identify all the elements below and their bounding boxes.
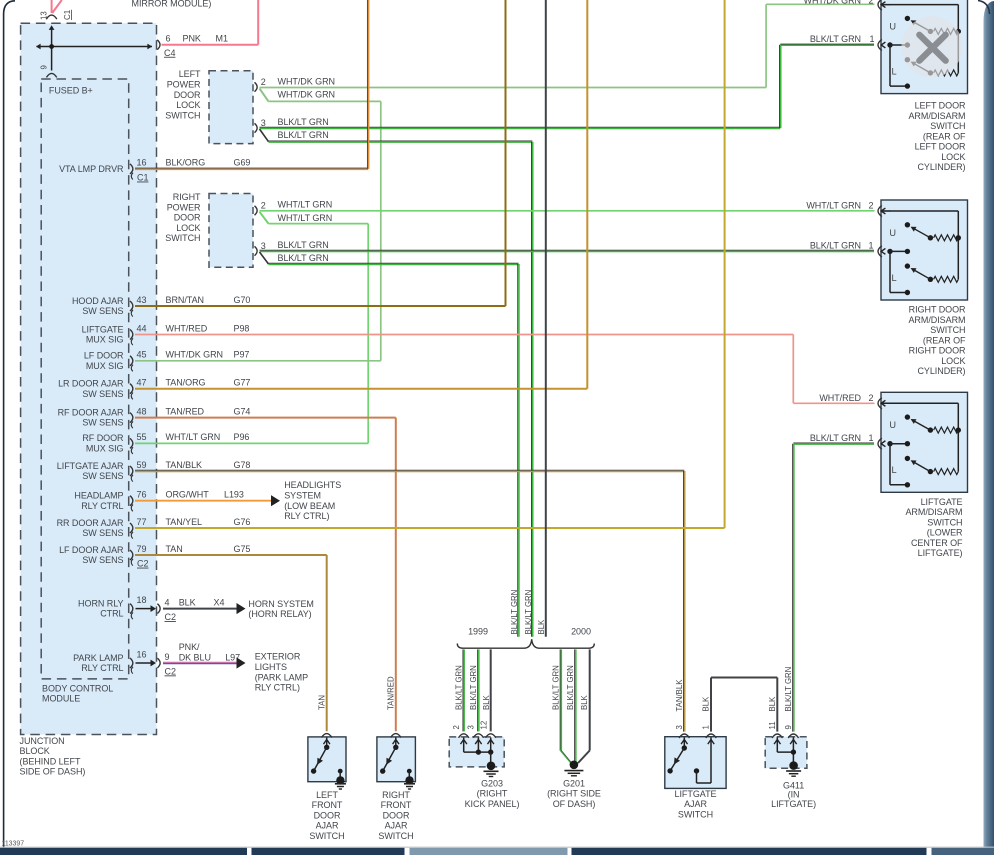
left door arm/disarm switch pin1 label <box>810 34 875 44</box>
liftgate arm/disarm switch pin1 label <box>810 433 874 443</box>
svg-text:RIGHT: RIGHT <box>382 790 410 800</box>
wire BLK X4 to horn system <box>163 603 246 614</box>
svg-text:FRONT: FRONT <box>381 800 412 810</box>
G201 ground <box>564 761 583 776</box>
svg-text:2: 2 <box>261 200 266 210</box>
wire label TAN/BLK rotated <box>675 679 684 712</box>
wire TAN/RED G74 from pin48 to right front door ajar switch <box>135 418 396 732</box>
wire BLK/LT GRN upper from right PDL pin3 to right door arm/disarm switch <box>260 250 875 251</box>
svg-text:U: U <box>889 228 896 238</box>
pin 9 PNK/DK BLU L97 labels <box>165 642 241 676</box>
wire label BLK rotated at liftgate pin1 <box>702 696 711 712</box>
wire BLK/ORG G69 from BCM pin16 to top <box>135 0 369 169</box>
svg-text:CTRL: CTRL <box>100 609 123 619</box>
svg-text:RF DOOR: RF DOOR <box>82 433 124 443</box>
splice wire labels BLK/LT GRN BLK/LT GRN BLK above brace <box>510 590 546 635</box>
liftgate arm/disarm switch pin2 label <box>819 393 873 403</box>
HORN RLY CTRL label <box>78 598 123 618</box>
svg-text:SW SENS: SW SENS <box>82 528 123 538</box>
svg-text:BLK/LT GRN: BLK/LT GRN <box>278 240 329 250</box>
svg-text:TAN/BLK: TAN/BLK <box>675 679 684 712</box>
svg-text:55: 55 <box>137 432 147 442</box>
svg-text:9: 9 <box>165 652 170 662</box>
svg-text:RIGHT DOOR: RIGHT DOOR <box>909 305 966 315</box>
svg-text:1999: 1999 <box>468 626 488 636</box>
wire label BLK rotated at G411 pin11 <box>768 696 777 712</box>
svg-text:SW SENS: SW SENS <box>82 471 123 481</box>
junction block label <box>20 736 86 777</box>
svg-text:HORN SYSTEM: HORN SYSTEM <box>248 599 313 609</box>
svg-text:SIDE OF DASH): SIDE OF DASH) <box>20 767 86 777</box>
svg-text:PNK/: PNK/ <box>179 642 200 652</box>
svg-text:X4: X4 <box>214 597 225 607</box>
right front door ajar switch box <box>377 737 416 782</box>
right front door ajar switch pin bracket <box>391 734 401 738</box>
svg-text:LF DOOR: LF DOOR <box>84 351 124 361</box>
svg-text:P97: P97 <box>234 350 250 360</box>
connector C4 pin 6 bracket <box>157 40 160 50</box>
svg-text:L: L <box>891 273 896 283</box>
pin 6 labels <box>164 34 228 58</box>
G411 pin brackets <box>772 734 799 738</box>
close icon overlay <box>919 35 945 61</box>
svg-text:BLK/LT GRN: BLK/LT GRN <box>810 433 861 443</box>
svg-text:BLK/LT GRN: BLK/LT GRN <box>784 667 793 712</box>
svg-text:FRONT: FRONT <box>312 800 343 810</box>
wire TAN G75 from pin79 to left front door ajar switch <box>135 555 327 731</box>
svg-text:PNK: PNK <box>183 34 201 44</box>
BCM pin 48 TAN/RED bracket and labels <box>130 406 250 428</box>
svg-text:TAN: TAN <box>317 695 326 710</box>
svg-text:(HORN RELAY): (HORN RELAY) <box>248 609 311 619</box>
svg-text:WHT/LT GRN: WHT/LT GRN <box>166 432 221 442</box>
svg-text:AJAR: AJAR <box>684 799 707 809</box>
svg-text:(PARK LAMP: (PARK LAMP <box>255 672 308 682</box>
BCM pin 59 TAN/BLK bracket and labels <box>130 460 250 482</box>
svg-text:RLY CTRL): RLY CTRL) <box>255 683 300 693</box>
svg-text:L193: L193 <box>224 490 244 500</box>
pin 9 label <box>40 65 49 69</box>
wire label BLK/LT GRN upper left PDL <box>278 117 329 127</box>
svg-text:BLK/LT GRN: BLK/LT GRN <box>455 665 464 710</box>
left front door ajar switch ground <box>335 776 346 789</box>
svg-text:POWER: POWER <box>167 202 201 212</box>
svg-text:RF DOOR AJAR: RF DOOR AJAR <box>58 407 124 417</box>
svg-text:LEFT: LEFT <box>316 790 338 800</box>
right front door ajar switch internals <box>380 738 412 780</box>
svg-text:CYLINDER): CYLINDER) <box>917 366 965 376</box>
svg-text:LOCK: LOCK <box>176 223 200 233</box>
svg-text:DOOR: DOOR <box>174 213 201 223</box>
svg-text:SWITCH: SWITCH <box>678 809 713 819</box>
svg-text:48: 48 <box>137 406 147 416</box>
svg-text:3: 3 <box>467 725 476 729</box>
right power door lock switch dashed box <box>209 194 253 268</box>
svg-text:TAN/BLK: TAN/BLK <box>166 460 203 470</box>
wire BLK/LT GRN lower from left PDL pin3 to splice <box>260 129 533 637</box>
BCM pin 18 HORN RLY CTRL bracket <box>130 595 160 619</box>
svg-text:VTA LMP DRVR: VTA LMP DRVR <box>59 164 124 174</box>
wire BLK splice to G203 pin12 <box>490 649 492 731</box>
G411 pin numbers 11 and 9 rotated <box>768 721 793 729</box>
svg-text:BLK/LT GRN: BLK/LT GRN <box>810 34 861 44</box>
svg-text:9: 9 <box>784 725 793 729</box>
svg-text:1: 1 <box>869 433 874 443</box>
svg-text:TAN: TAN <box>166 544 183 554</box>
svg-text:BLOCK: BLOCK <box>20 746 50 756</box>
body control module dashed box <box>41 79 129 679</box>
svg-text:(RIGHT SIDE: (RIGHT SIDE <box>547 789 601 799</box>
liftgate arm/disarm switch <box>878 392 968 492</box>
wire label TAN/RED rotated <box>386 676 395 710</box>
wire label WHT/LT GRN upper <box>278 200 333 210</box>
svg-text:59: 59 <box>137 460 147 470</box>
svg-text:MUX SIG: MUX SIG <box>86 444 124 454</box>
svg-text:P98: P98 <box>234 323 250 333</box>
svg-text:LOCK: LOCK <box>941 152 965 162</box>
svg-text:G70: G70 <box>234 295 251 305</box>
svg-text:RIGHT: RIGHT <box>173 192 201 202</box>
svg-text:BLK/ORG: BLK/ORG <box>166 158 206 168</box>
G411 connector dashed box <box>765 737 807 769</box>
svg-text:LOCK: LOCK <box>941 356 965 366</box>
svg-text:113397: 113397 <box>2 841 25 848</box>
svg-text:SYSTEM: SYSTEM <box>284 491 321 501</box>
svg-text:WHT/RED: WHT/RED <box>819 393 861 403</box>
liftgate ajar switch label <box>675 789 717 819</box>
svg-text:LEFT: LEFT <box>179 69 201 79</box>
svg-text:RIGHT DOOR: RIGHT DOOR <box>909 346 966 356</box>
wire label WHT/DK GRN upper <box>278 76 336 86</box>
svg-text:SW SENS: SW SENS <box>82 555 123 565</box>
svg-text:FUSED B+: FUSED B+ <box>49 85 93 95</box>
svg-text:BLK: BLK <box>702 696 711 712</box>
svg-text:G69: G69 <box>234 158 251 168</box>
svg-text:RR DOOR AJAR: RR DOOR AJAR <box>57 518 124 528</box>
wire BLK from liftgate ajar pin1 to G411 pin11 <box>711 678 777 732</box>
svg-text:16: 16 <box>137 158 147 168</box>
G201 label <box>547 778 601 809</box>
wire label TAN rotated <box>317 695 326 710</box>
svg-text:2: 2 <box>869 201 874 211</box>
svg-text:2: 2 <box>261 77 266 87</box>
svg-text:(BEHIND LEFT: (BEHIND LEFT <box>20 756 81 766</box>
svg-text:BLK/LT GRN: BLK/LT GRN <box>552 665 561 710</box>
headlights system label <box>284 480 341 521</box>
BCM pin 79 TAN bracket and labels <box>130 544 250 569</box>
svg-text:LF DOOR AJAR: LF DOOR AJAR <box>59 545 124 555</box>
svg-text:LIGHTS: LIGHTS <box>255 662 287 672</box>
svg-text:SWITCH: SWITCH <box>927 517 962 527</box>
wire label WHT/DK GRN lower <box>278 90 336 100</box>
drawing number 113397 <box>2 841 25 848</box>
svg-text:DK BLU: DK BLU <box>179 653 211 663</box>
G203 pin numbers 2 3 12 <box>452 721 488 730</box>
BCM pin 45 WHT/DK GRN bracket and labels <box>130 350 249 372</box>
svg-text:13: 13 <box>40 11 49 20</box>
left front door ajar switch pin bracket <box>322 734 332 738</box>
wire BLK/LT GRN splice to G203 pin3 <box>478 649 479 731</box>
svg-text:HEADLAMP: HEADLAMP <box>74 491 123 501</box>
svg-text:LIFTGATE: LIFTGATE <box>82 324 124 334</box>
left front door ajar switch box <box>308 737 346 782</box>
page frame right scrollbar <box>978 1 994 855</box>
svg-text:DOOR: DOOR <box>314 810 341 820</box>
svg-text:79: 79 <box>137 544 147 554</box>
svg-text:RLY CTRL: RLY CTRL <box>81 501 123 511</box>
svg-text:LOCK: LOCK <box>176 100 200 110</box>
svg-text:WHT/DK GRN: WHT/DK GRN <box>278 76 336 86</box>
svg-text:BRN/TAN: BRN/TAN <box>166 295 205 305</box>
mirror module label (cut) <box>132 0 212 8</box>
svg-text:2: 2 <box>869 393 874 403</box>
svg-text:BLK: BLK <box>580 694 589 710</box>
svg-text:SW SENS: SW SENS <box>82 418 123 428</box>
page frame left border <box>4 1 15 848</box>
svg-text:OF DASH): OF DASH) <box>553 799 596 809</box>
svg-text:C4: C4 <box>164 48 175 58</box>
svg-text:3: 3 <box>261 118 266 128</box>
svg-text:G203: G203 <box>481 778 503 788</box>
left power door lock switch dashed box <box>209 71 253 144</box>
svg-text:U: U <box>889 420 896 430</box>
left door arm/disarm switch <box>878 0 968 94</box>
svg-text:LEFT DOOR: LEFT DOOR <box>915 101 966 111</box>
svg-text:RLY CTRL: RLY CTRL <box>81 663 123 673</box>
svg-text:BLK/LT GRN: BLK/LT GRN <box>524 590 533 635</box>
G203 connector dashed box <box>449 737 504 767</box>
svg-text:G77: G77 <box>234 378 251 388</box>
svg-text:ARM/DISARM: ARM/DISARM <box>905 507 962 517</box>
svg-text:3: 3 <box>675 725 684 729</box>
pin 4 BLK X4 labels <box>165 597 225 622</box>
svg-text:WHT/DK GRN: WHT/DK GRN <box>278 90 336 100</box>
BCM pin 76 ORG/WHT bracket and labels <box>130 490 244 512</box>
HEADLAMP RLY CTRL label <box>74 491 123 511</box>
LF DOOR MUX SIG label <box>84 351 124 371</box>
PARK LAMP RLY CTRL label <box>73 653 123 673</box>
svg-text:TAN/YEL: TAN/YEL <box>166 517 203 527</box>
wire PNK/DK BLU L97 to exterior lights <box>163 657 246 668</box>
svg-text:(REAR OF: (REAR OF <box>923 335 966 345</box>
svg-text:MUX SIG: MUX SIG <box>86 335 124 345</box>
liftgate ajar switch box <box>665 737 726 789</box>
svg-text:C2: C2 <box>165 612 176 622</box>
G203 internal wires <box>460 738 493 765</box>
svg-text:WHT/DK GRN: WHT/DK GRN <box>166 350 224 360</box>
LR DOOR AJAR SW SENS label <box>58 379 124 399</box>
body control module label <box>42 683 113 703</box>
svg-text:G74: G74 <box>234 406 251 416</box>
wire BLK/LT GRN lower from right PDL pin3 to splice <box>260 252 519 637</box>
svg-text:WHT/LT GRN: WHT/LT GRN <box>806 201 861 211</box>
svg-text:TAN/RED: TAN/RED <box>166 406 205 416</box>
wire label BLK/LT GRN lower right PDL <box>278 253 329 263</box>
svg-text:EXTERIOR: EXTERIOR <box>255 652 301 662</box>
RF DOOR MUX SIG label <box>82 433 124 453</box>
svg-text:SWITCH: SWITCH <box>165 233 200 243</box>
svg-text:1: 1 <box>870 34 875 44</box>
svg-text:(LOWER: (LOWER <box>927 528 963 538</box>
svg-text:L: L <box>891 465 896 475</box>
wire BLK from top to splice <box>545 0 547 637</box>
svg-text:AJAR: AJAR <box>316 821 339 831</box>
LIFTGATE MUX SIG label <box>82 324 124 344</box>
svg-text:BLK/LT GRN: BLK/LT GRN <box>278 253 329 263</box>
svg-text:BLK: BLK <box>179 597 196 607</box>
svg-text:WHT/LT GRN: WHT/LT GRN <box>278 200 333 210</box>
svg-text:LIFTGATE): LIFTGATE) <box>918 548 963 558</box>
pin 9 bracket <box>46 73 56 77</box>
liftgate ajar switch internals <box>667 737 714 783</box>
svg-text:G75: G75 <box>234 544 251 554</box>
1999 label <box>468 626 488 636</box>
junction block internal bus <box>36 25 152 70</box>
svg-text:16: 16 <box>137 649 147 659</box>
right door arm/disarm switch <box>878 200 968 300</box>
svg-text:LIFTGATE): LIFTGATE) <box>771 799 816 809</box>
exterior lights label <box>255 652 308 693</box>
RF DOOR AJAR SW SENS label <box>58 407 124 427</box>
svg-text:1: 1 <box>702 725 711 729</box>
svg-text:C2: C2 <box>137 559 148 569</box>
svg-text:9: 9 <box>40 65 49 69</box>
svg-text:MUX SIG: MUX SIG <box>86 361 124 371</box>
svg-text:76: 76 <box>137 490 147 500</box>
HOOD AJAR SW SENS label <box>72 296 124 316</box>
svg-text:WHT/LT GRN: WHT/LT GRN <box>278 213 333 223</box>
wire TAN/BLK G78 from pin59 to liftgate ajar switch <box>135 470 685 731</box>
svg-text:LIFTGATE: LIFTGATE <box>921 497 963 507</box>
2000 label <box>571 626 591 636</box>
svg-text:6: 6 <box>166 34 171 44</box>
BCM pin 55 WHT/LT GRN bracket and labels <box>130 432 249 454</box>
svg-text:LR DOOR AJAR: LR DOOR AJAR <box>58 379 124 389</box>
svg-text:BLK: BLK <box>537 619 546 635</box>
svg-text:45: 45 <box>137 350 147 360</box>
right PDL switch pin 2 bracket <box>255 200 266 215</box>
wire WHT/DK GRN lower from left PDL pin2 to BCM pin 45 <box>260 89 381 361</box>
wire labels left splice group <box>455 665 492 710</box>
svg-text:2: 2 <box>452 725 461 729</box>
right power door lock switch label <box>165 192 201 243</box>
svg-text:11: 11 <box>768 721 777 729</box>
svg-text:SWITCH: SWITCH <box>930 325 965 335</box>
svg-text:L: L <box>891 66 896 76</box>
G203 pin brackets <box>459 734 496 738</box>
svg-text:CYLINDER): CYLINDER) <box>917 162 965 172</box>
svg-text:MIRROR MODULE): MIRROR MODULE) <box>132 0 212 8</box>
wire PNK M1 from pin 6 to top <box>162 0 259 45</box>
wire BLK splice to G201 right <box>578 649 590 763</box>
svg-text:44: 44 <box>137 323 147 333</box>
liftgate arm/disarm switch label <box>905 497 963 558</box>
wire WHT/LT GRN upper from right PDL pin2 to right door arm/disarm switch <box>260 210 875 212</box>
svg-text:C1: C1 <box>63 9 72 20</box>
svg-text:(RIGHT: (RIGHT <box>477 789 508 799</box>
svg-text:LIFTGATE: LIFTGATE <box>675 789 717 799</box>
G203 label <box>465 778 520 809</box>
BCM pin 16 PARK LAMP RLY CTRL bracket <box>130 649 160 673</box>
svg-text:SW SENS: SW SENS <box>82 389 123 399</box>
svg-text:47: 47 <box>137 378 147 388</box>
G411 internal wires <box>774 737 797 765</box>
svg-text:DOOR: DOOR <box>383 810 410 820</box>
svg-text:SWITCH: SWITCH <box>378 831 413 841</box>
G411 ground <box>786 761 801 776</box>
svg-text:DOOR: DOOR <box>174 90 201 100</box>
svg-text:HORN RLY: HORN RLY <box>78 598 123 608</box>
wire PNK to mirror module pin 13 <box>52 0 62 13</box>
svg-text:(REAR OF: (REAR OF <box>923 131 966 141</box>
wire BLK/LT GRN upper from left PDL pin3 to left door arm/disarm switch <box>260 44 875 128</box>
svg-text:C2: C2 <box>165 666 176 676</box>
VTA LMP DRVR label <box>59 164 124 174</box>
BCM pin 43 BRN/TAN bracket and labels <box>130 295 250 317</box>
svg-text:3: 3 <box>261 241 266 251</box>
left power door lock switch label <box>165 69 201 120</box>
pin 13 label <box>40 11 49 20</box>
svg-text:CENTER OF: CENTER OF <box>911 538 963 548</box>
wire BLK/LT GRN from liftgate arm/disarm pin1 to G411 pin9 <box>793 443 874 732</box>
wire BLK/LT GRN splice to G201 middle <box>575 649 576 762</box>
svg-text:HEADLIGHTS: HEADLIGHTS <box>284 480 341 490</box>
svg-text:P96: P96 <box>234 432 250 442</box>
wire WHT/DK GRN P97 from pin45 <box>135 360 381 362</box>
svg-text:SWITCH: SWITCH <box>165 110 200 120</box>
svg-text:BLK/LT GRN: BLK/LT GRN <box>278 130 329 140</box>
svg-text:ARM/DISARM: ARM/DISARM <box>908 315 965 325</box>
svg-text:2000: 2000 <box>571 626 591 636</box>
svg-text:1: 1 <box>869 241 874 251</box>
page frame bottom bar <box>0 847 994 855</box>
LF DOOR AJAR SW SENS label <box>59 545 124 565</box>
fused B+ label <box>49 85 93 95</box>
pin labels 3 and 1 rotated <box>675 725 711 729</box>
wire WHT/LT GRN P96 from pin55 <box>135 442 368 444</box>
svg-text:POWER: POWER <box>167 80 201 90</box>
wire label BLK/LT GRN lower left PDL <box>278 130 329 140</box>
svg-text:LEFT DOOR: LEFT DOOR <box>915 142 966 152</box>
wire label WHT/LT GRN lower <box>278 213 333 223</box>
svg-text:12: 12 <box>479 721 488 730</box>
left door arm/disarm switch label <box>908 101 966 173</box>
wire TAN/ORG G77 from pin47 to top <box>135 0 587 389</box>
svg-text:BLK/LT GRN: BLK/LT GRN <box>510 590 519 635</box>
svg-text:TAN/RED: TAN/RED <box>386 676 395 710</box>
svg-text:18: 18 <box>137 595 147 605</box>
G411 label <box>771 780 816 809</box>
svg-text:ORG/WHT: ORG/WHT <box>166 490 210 500</box>
connector C1 label at pin 13 <box>63 9 72 20</box>
svg-text:U: U <box>889 21 896 31</box>
svg-text:LIFTGATE AJAR: LIFTGATE AJAR <box>57 461 124 471</box>
svg-text:PARK LAMP: PARK LAMP <box>73 653 123 663</box>
svg-text:BLK/LT GRN: BLK/LT GRN <box>566 665 575 710</box>
svg-text:TAN/ORG: TAN/ORG <box>166 378 206 388</box>
BCM pin 44 WHT/RED bracket and labels <box>130 323 249 345</box>
wire ORG/WHT L193 from pin76 to headlights system <box>135 495 280 506</box>
liftgate ajar switch pin 1 bracket <box>706 734 716 738</box>
BCM pin 16 VTA LMP DRVR bracket and labels <box>130 158 250 183</box>
left PDL switch pin 3 bracket <box>255 118 266 133</box>
wire BLK/LT GRN splice to G201 left <box>560 649 571 763</box>
svg-text:RLY CTRL): RLY CTRL) <box>284 511 329 521</box>
svg-text:SWITCH: SWITCH <box>930 121 965 131</box>
LIFTGATE AJAR SW SENS label <box>57 461 124 481</box>
svg-text:ARM/DISARM: ARM/DISARM <box>908 111 965 121</box>
svg-text:JUNCTION: JUNCTION <box>20 736 65 746</box>
